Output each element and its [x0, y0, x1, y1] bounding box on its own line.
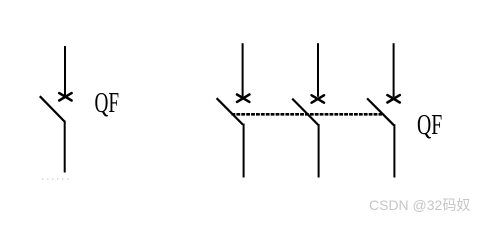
breaker QF2 pole B: blade — [292, 99, 318, 125]
breaker QF2: mechanical linkage (dashed) — [232, 113, 383, 116]
svg-text:QF: QF — [95, 87, 120, 119]
breaker QF2 pole C: top lead wire — [393, 43, 395, 97]
breaker QF2 pole A: blade — [217, 98, 243, 124]
breaker QF2 pole B: top lead wire — [317, 43, 319, 97]
breaker QF1: fixed-contact cross — [59, 93, 71, 100]
breaker QF2 pole C: bottom lead wire — [393, 124, 395, 177]
breaker QF2 three-pole, pole A: top lead wire — [242, 43, 244, 96]
breaker QF2 pole C: fixed-contact cross — [387, 95, 399, 102]
breaker QF1: bottom lead wire — [64, 121, 66, 173]
breaker QF2 pole A: fixed-contact cross — [237, 95, 249, 102]
breaker QF2 pole A: bottom lead wire — [243, 124, 245, 178]
breaker QF2 pole C: blade — [367, 98, 394, 125]
svg-text:QF: QF — [417, 109, 442, 141]
breaker QF1: blade — [40, 96, 65, 121]
breaker QF2 pole B: fixed-contact cross — [312, 95, 324, 102]
breaker QF2 pole B: bottom lead wire — [318, 124, 320, 178]
breaker QF1 single-pole: top lead wire — [64, 46, 66, 97]
